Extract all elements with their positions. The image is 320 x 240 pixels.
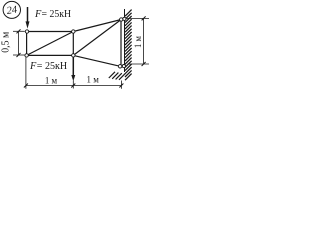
slash tick top <box>142 16 146 20</box>
wire: bottom member C-D <box>73 55 120 66</box>
wall hatching <box>125 10 132 81</box>
problem number circle 24 <box>3 1 20 18</box>
wire: diagonal member B-T <box>27 32 74 56</box>
extension line at D level <box>128 63 150 65</box>
wall face line <box>124 9 126 72</box>
wire: wall-side member E-D <box>120 20 122 67</box>
dimension line <box>18 31 20 55</box>
dimension line <box>143 18 145 64</box>
svg-text:F: F <box>29 61 37 72</box>
force arrow F at node A (top) <box>26 7 30 29</box>
left dimension 0,5 m <box>13 29 25 57</box>
node A (top-left pin) <box>25 30 28 33</box>
svg-text:1 м: 1 м <box>87 74 99 85</box>
force arrow F at node C (bottom) <box>71 57 75 81</box>
svg-text:1 м: 1 м <box>45 76 57 87</box>
dimension line <box>26 85 122 87</box>
extension line at E level <box>127 17 150 19</box>
node T (top-middle pin) <box>72 30 75 33</box>
svg-text:0,5 м: 0,5 м <box>1 31 12 53</box>
node D (bottom pin at wall) <box>118 65 121 68</box>
ground hatching under support D <box>109 72 125 80</box>
slash tick bottom <box>17 53 21 57</box>
extension line from B <box>25 57 27 89</box>
node E2 (wall anchor pin at apex) <box>123 17 126 20</box>
wire: middle vertical member T-C <box>72 32 74 56</box>
wire: top chord A-T <box>27 31 73 33</box>
slash tick left <box>24 84 28 88</box>
slash tick top <box>17 29 21 33</box>
extension line at A level <box>13 30 25 32</box>
node E (apex pin at wall) <box>120 18 123 21</box>
svg-text:1 м: 1 м <box>133 36 144 48</box>
slash tick right <box>119 84 123 88</box>
wire: bottom chord B-C <box>27 54 74 56</box>
extension line below C <box>72 81 74 89</box>
svg-text:= 25кН: = 25кН <box>42 9 72 20</box>
wire: upper diagonal member T-E <box>73 20 121 32</box>
bottom dimension lines 1 m + 1 m <box>24 57 124 89</box>
slash tick bottom <box>142 62 146 66</box>
wire: diagonal member C-E <box>73 20 121 56</box>
svg-text:= 25кН: = 25кН <box>37 61 68 72</box>
wire: left vertical member A-B <box>26 32 28 56</box>
slash tick middle <box>71 84 75 88</box>
node C (bottom-middle pin) <box>72 54 75 57</box>
right dimension 1 m <box>127 16 150 66</box>
node D2 (wall anchor pin at bottom) <box>122 65 125 68</box>
node B (bottom-left pin) <box>25 54 28 57</box>
extension line below D <box>120 81 122 89</box>
extension line at B level <box>13 54 25 56</box>
